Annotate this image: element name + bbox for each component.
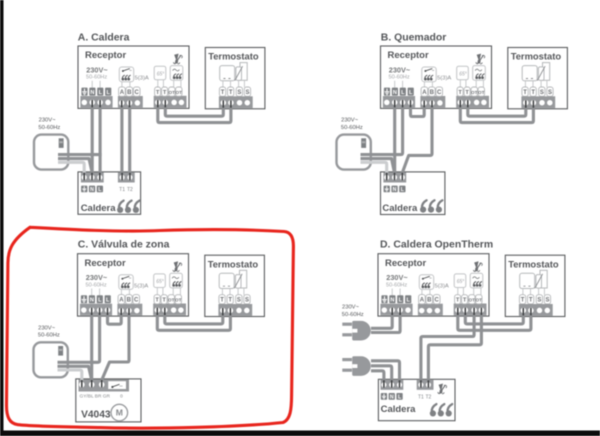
caldera label L [396, 393, 402, 400]
svg-text:V4043: V4043 [81, 409, 111, 420]
svg-text:N: N [90, 187, 94, 193]
valve aux switch icon [108, 381, 126, 389]
wire T loop inner: receptor T2 to termostato T [468, 107, 526, 116]
svg-text:B. Quemador: B. Quemador [381, 32, 447, 43]
caldera label N [389, 393, 395, 400]
wire-end stubs termostato [223, 100, 231, 108]
wire T loop inner: receptor T2 to termostato T [465, 315, 523, 324]
svg-text:Caldera: Caldera [382, 203, 418, 214]
wire-end stubs receptor [92, 100, 100, 107]
wire OT2: receptor OT2 to caldera T2 [428, 315, 481, 382]
wire earth: socket to valve GY (light grey) [58, 370, 82, 380]
mains wall socket C [34, 325, 68, 377]
mains plug for receptor [342, 321, 371, 341]
wire earth: socket to caldera earth (light grey) [58, 162, 84, 173]
svg-text:T1: T1 [418, 394, 424, 400]
wire mains L: socket to receptor L drop [58, 153, 102, 156]
wire plug1 to receptor L [371, 315, 400, 333]
caldera flames [430, 404, 452, 416]
wire OT1: receptor OT to caldera T1 [421, 315, 474, 382]
svg-text:50-60Hz: 50-60Hz [342, 312, 364, 318]
caldera label N [391, 186, 397, 193]
caldera terminal block earth N L [381, 380, 404, 390]
wire jumper: receptor L2 to receptor A [411, 107, 425, 117]
wire mains N: socket to caldera N (diagonal) [361, 159, 395, 173]
svg-text:0: 0 [120, 394, 123, 400]
wire-end stubs valve [82, 380, 102, 387]
black border bar left edge [0, 0, 4, 436]
termostato unit C [205, 255, 265, 316]
wire-end stubs termostato [223, 308, 231, 316]
wire T loop outer: receptor T to termostato T2 [158, 107, 231, 123]
svg-text:T2: T2 [127, 187, 133, 193]
wire L: receptor L down to caldera L [99, 107, 102, 175]
svg-text:A. Caldera: A. Caldera [78, 32, 130, 43]
wire T loop inner: receptor T2 to termostato T [165, 107, 223, 116]
svg-text:C. Válvula de zona: C. Válvula de zona [78, 240, 170, 251]
valve motor M [111, 404, 128, 421]
wire-end stubs caldera [384, 380, 429, 387]
wire switched: receptor B to valve BR [102, 315, 129, 380]
mains wall socket B [337, 118, 371, 170]
wire-end stubs caldera [84, 173, 130, 180]
caldera box (D) [378, 379, 455, 420]
wire plug1 to receptor N [371, 315, 392, 329]
zone valve V4043 box [76, 379, 141, 422]
caldera flames [117, 201, 139, 213]
valve terminal block [79, 380, 130, 392]
wire earth: socket to caldera earth (light grey) [361, 162, 387, 173]
wire-end stubs termostato [526, 100, 534, 108]
termostato unit B [508, 48, 568, 109]
receptor unit A [78, 46, 189, 108]
wire-end stubs receptor [395, 100, 411, 107]
svg-text:Caldera: Caldera [81, 203, 117, 214]
caldera antenna icon [438, 384, 447, 394]
svg-text:M: M [116, 408, 123, 418]
wire mains L: socket up into receptor L [361, 107, 403, 155]
caldera label N [89, 186, 95, 193]
wire mains N: socket to caldera N (diagonal) [58, 159, 92, 173]
caldera box (B) [381, 172, 445, 215]
caldera terminal block earth N L [81, 172, 104, 182]
wire T loop outer: receptor T to termostato T2 [460, 107, 533, 123]
caldera label L [399, 186, 405, 193]
caldera label earth [81, 186, 87, 193]
wire switched: receptor B to caldera L [402, 107, 432, 173]
receptor unit C [78, 254, 189, 316]
wire N: receptor N down to caldera N [91, 107, 94, 175]
receptor unit D [378, 254, 489, 316]
wire T loop outer: receptor T to termostato T2 [458, 315, 531, 331]
wire mains L: socket up into receptor L [58, 315, 100, 363]
wire plug2 to caldera N [371, 366, 392, 382]
wire jumper: receptor L2 to receptor A [108, 315, 122, 325]
svg-text:Caldera: Caldera [381, 404, 417, 415]
svg-text:D. Caldera OpenTherm: D. Caldera OpenTherm [380, 240, 493, 251]
wire-end stubs termostato [523, 308, 531, 316]
black border bar bottom edge [0, 431, 600, 436]
caldera label L [97, 186, 103, 193]
wire switched B: receptor B down to caldera T2 [128, 107, 131, 175]
wire T loop inner: receptor T2 to termostato T [165, 315, 223, 324]
caldera terminal block T1 T2 [417, 380, 434, 390]
wire N: receptor N down to caldera N [393, 107, 396, 175]
wire mains N: socket to valve BL (diagonal) [58, 366, 92, 380]
caldera label earth [384, 186, 390, 193]
caldera flames [420, 200, 442, 212]
svg-text:GY/BL BR GR: GY/BL BR GR [80, 394, 111, 400]
receptor unit B [381, 46, 492, 108]
mains wall socket A [34, 118, 68, 170]
caldera terminal block T1 T2 [118, 172, 135, 182]
caldera label earth [381, 393, 387, 400]
mains plug for caldera [342, 356, 371, 376]
svg-text:230V~: 230V~ [342, 305, 360, 311]
svg-text:T2: T2 [425, 394, 431, 400]
svg-text:N: N [390, 395, 394, 401]
svg-text:T1: T1 [119, 187, 125, 193]
wire switched A: receptor A down to caldera T1 [120, 107, 123, 175]
termostato unit A [205, 48, 265, 109]
red hand-drawn highlight loop around section C [6, 227, 293, 428]
wire-end stubs caldera [387, 173, 403, 180]
wire plug2 to caldera L [371, 361, 400, 382]
caldera box (A) [78, 172, 141, 214]
wire-end stubs receptor [392, 308, 400, 315]
termostato unit D [505, 255, 565, 316]
wire N: receptor N down to valve BL [90, 315, 93, 382]
caldera terminal block earth N L [383, 172, 406, 182]
wire plug2 to caldera earth [371, 371, 384, 382]
wire T loop outer: receptor T to termostato T2 [157, 315, 230, 331]
wire-end stubs receptor [92, 308, 108, 315]
svg-text:N: N [393, 187, 397, 193]
